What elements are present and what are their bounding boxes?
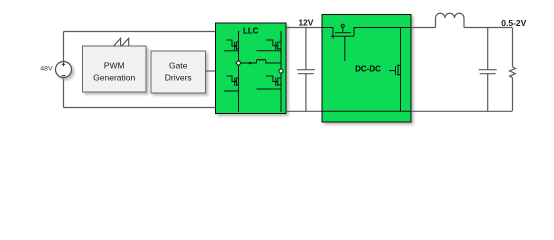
voltage source V1 48V	[56, 62, 72, 78]
svg-text:48V: 48V	[40, 66, 53, 73]
svg-text:12V: 12V	[298, 17, 313, 27]
wire output top rail	[464, 27, 512, 29]
wire 48V top rail	[64, 31, 216, 33]
svg-text:Gate: Gate	[169, 61, 188, 71]
svg-text:Drivers: Drivers	[165, 73, 192, 83]
wire output bottom rail	[411, 110, 512, 112]
svg-text:PWM: PWM	[104, 61, 125, 71]
transistor Q2 (top-right MOSFET)	[257, 40, 282, 51]
svg-text:LLC: LLC	[243, 27, 259, 36]
wire source lower lead	[63, 77, 65, 108]
block LLC converter	[216, 23, 287, 114]
wire LLC left leg	[238, 31, 240, 112]
wire 48V bottom rail	[64, 107, 216, 109]
wire LLC mid rail with resonant inductor	[241, 59, 282, 63]
wire LLC right leg	[280, 31, 282, 112]
transistor Q3 (bottom-left MOSFET)	[224, 76, 239, 91]
wire source upper lead	[63, 32, 65, 62]
wire DC-DC switch rail	[354, 27, 411, 29]
block DC-DC converter	[322, 15, 411, 123]
resistor R1 (load)	[510, 28, 516, 112]
transistor Q1 (top-left MOSFET)	[224, 40, 239, 51]
transistor Q6 (sync MOSFET, vertical)	[389, 28, 401, 112]
wire 12V rail bottom	[286, 110, 322, 112]
wire 12V rail top	[286, 27, 322, 29]
capacitor C1 (12V bus cap)	[297, 28, 315, 112]
node diamond (left mid node)	[236, 60, 241, 65]
block PWM Generation	[83, 46, 147, 92]
capacitor C2 (output cap)	[479, 28, 497, 112]
inductor L1	[436, 13, 465, 27]
wire output switch node	[411, 27, 436, 29]
node circle (right mid node)	[279, 69, 283, 73]
wire gate drivers to LLC	[206, 70, 216, 72]
block Gate Drivers	[151, 51, 206, 93]
transistor Q4 (bottom-right MOSFET)	[257, 76, 282, 89]
svg-text:DC-DC: DC-DC	[355, 65, 381, 74]
transistor Q5 (series MOSFET, horizontal)	[331, 24, 354, 61]
wire DC-DC input rail	[322, 27, 333, 29]
svg-text:Generation: Generation	[93, 73, 135, 83]
svg-text:0.5-2V: 0.5-2V	[501, 18, 526, 28]
junction dot mid rail	[249, 62, 252, 65]
sawtooth carrier icon	[114, 38, 129, 46]
wire DC-DC bottom rail	[322, 110, 411, 112]
